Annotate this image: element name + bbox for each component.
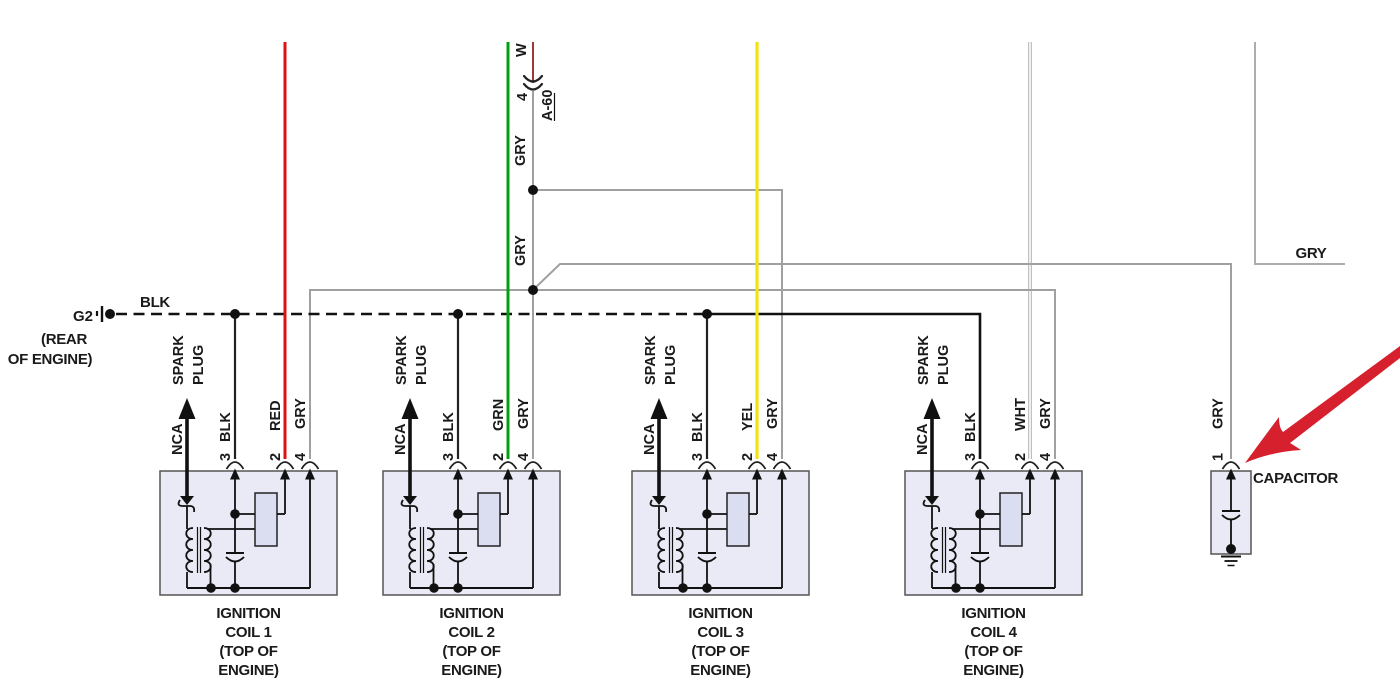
- coil 4 igniter: [1000, 493, 1022, 546]
- svg-text:GRY: GRY: [513, 135, 529, 166]
- wire GRY right side: [1255, 42, 1345, 264]
- node rail junction 1: [206, 583, 216, 593]
- svg-text:ENGINE): ENGINE): [963, 662, 1024, 679]
- wire pin4 to ground rail: [1054, 478, 1056, 588]
- coil 3 ground rail: [659, 587, 782, 589]
- coil 2 pin 2 connector: [500, 462, 517, 469]
- node coil 2 pin3 junction: [453, 509, 463, 519]
- coil 4 pin 4 connector: [1047, 462, 1064, 469]
- capacitor box: [1211, 471, 1251, 554]
- svg-text:OF ENGINE): OF ENGINE): [8, 351, 93, 368]
- svg-text:(REAR: (REAR: [41, 331, 87, 348]
- coil 4 pin 3 connector: [972, 462, 989, 469]
- wire pin3 branch: [979, 478, 981, 553]
- wire GRN (to coil 2 pin 2): [507, 42, 510, 459]
- svg-text:ENGINE): ENGINE): [218, 662, 279, 679]
- wire secondary to igniter: [207, 528, 255, 530]
- coil 1 ground rail: [187, 587, 310, 589]
- wire pin3 branch: [234, 478, 236, 553]
- node BLK junction coil 3: [702, 309, 712, 319]
- coil 2 ground rail: [410, 587, 533, 589]
- svg-text:GRY: GRY: [293, 398, 309, 429]
- wire pin3 branch: [457, 478, 459, 553]
- svg-text:COIL 4: COIL 4: [970, 624, 1017, 641]
- svg-text:BLK: BLK: [690, 412, 706, 442]
- wire W (dark red stub at top): [532, 42, 534, 83]
- net GRY branch coil1 pin4 to coil4 pin4: [310, 290, 1055, 459]
- wire secondary to igniter: [430, 528, 478, 530]
- svg-text:SPARK: SPARK: [394, 335, 410, 385]
- svg-text:PLUG: PLUG: [936, 345, 952, 385]
- svg-text:G2: G2: [73, 308, 93, 325]
- svg-text:GRY: GRY: [1211, 398, 1227, 429]
- coil 3 pin 3 connector: [699, 462, 716, 469]
- wire YEL (to coil 3 pin 2): [755, 42, 758, 459]
- svg-text:4: 4: [515, 93, 531, 101]
- coil 4 pin 2 connector: [1022, 462, 1039, 469]
- svg-text:(TOP OF: (TOP OF: [442, 643, 500, 660]
- wire pin4 to ground rail: [781, 478, 783, 588]
- svg-text:GRN: GRN: [491, 399, 507, 431]
- coil 4 primary winding: [931, 528, 938, 572]
- svg-text:4: 4: [293, 453, 309, 461]
- coil 4 core: [942, 527, 944, 573]
- svg-text:GRY: GRY: [1038, 398, 1054, 429]
- svg-text:(TOP OF: (TOP OF: [964, 643, 1022, 660]
- coil 2 primary capacitor: [449, 552, 467, 554]
- svg-text:NCA: NCA: [170, 423, 186, 455]
- coil 2 igniter: [478, 493, 500, 546]
- node rail junction 2: [230, 583, 240, 593]
- wire pin2 to igniter: [507, 478, 509, 514]
- coil 1 primary winding: [186, 528, 193, 572]
- wire RED (to coil 1 pin 2): [284, 42, 287, 459]
- svg-text:GRY: GRY: [516, 398, 532, 429]
- node capacitor ground: [1226, 544, 1236, 554]
- svg-text:SPARK: SPARK: [643, 335, 659, 385]
- coil 3 primary capacitor: [698, 552, 716, 554]
- coil 1 spark gap diode: [180, 496, 194, 505]
- svg-text:PLUG: PLUG: [663, 345, 679, 385]
- svg-text:W: W: [514, 43, 530, 57]
- node coil 4 pin3 junction: [975, 509, 985, 519]
- coil 2 core: [420, 527, 422, 573]
- svg-text:2: 2: [268, 453, 284, 461]
- wire pin2 to igniter: [1029, 478, 1031, 514]
- capacitor element: [1222, 510, 1240, 512]
- wire pin4 to ground rail: [532, 478, 534, 588]
- svg-text:2: 2: [1013, 453, 1029, 461]
- svg-text:IGNITION: IGNITION: [216, 605, 280, 622]
- svg-text:3: 3: [218, 453, 234, 461]
- node coil 3 pin3 junction: [702, 509, 712, 519]
- coil 1 pin 3 connector: [227, 462, 244, 469]
- svg-text:IGNITION: IGNITION: [961, 605, 1025, 622]
- svg-text:(TOP OF: (TOP OF: [219, 643, 277, 660]
- coil 1 igniter: [255, 493, 277, 546]
- coil 1 core: [197, 527, 199, 573]
- coil 2 pin 3 connector: [450, 462, 467, 469]
- svg-text:COIL 1: COIL 1: [225, 624, 271, 641]
- node rail junction 2: [975, 583, 985, 593]
- wire secondary to igniter: [952, 528, 1000, 530]
- node GRY junction lower: [528, 285, 538, 295]
- wire BLK drop to coil 3 pin 3: [706, 314, 708, 459]
- node rail junction 1: [429, 583, 439, 593]
- svg-text:1: 1: [1211, 453, 1227, 461]
- svg-text:PLUG: PLUG: [414, 345, 430, 385]
- coil 4 spark plug output arrow (NCA): [924, 398, 941, 419]
- svg-text:NCA: NCA: [393, 423, 409, 455]
- coil 4 ground rail: [932, 587, 1055, 589]
- node rail junction 1: [951, 583, 961, 593]
- coil 1 spark plug output arrow (NCA): [179, 398, 196, 419]
- svg-text:3: 3: [690, 453, 706, 461]
- wire secondary to igniter: [679, 528, 727, 530]
- coil 3 pin 4 connector: [774, 462, 791, 469]
- connector A-60: [524, 76, 542, 82]
- coil 3 primary winding: [658, 528, 665, 572]
- svg-text:BLK: BLK: [140, 294, 170, 311]
- svg-text:BLK: BLK: [441, 412, 457, 442]
- coil 3 spark gap diode: [652, 496, 666, 505]
- svg-text:(TOP OF: (TOP OF: [691, 643, 749, 660]
- coil 1 secondary winding: [204, 528, 211, 572]
- node rail junction 2: [453, 583, 463, 593]
- coil 4 primary capacitor: [971, 552, 989, 554]
- svg-text:GRY: GRY: [1295, 245, 1326, 262]
- wire WHT (to coil 4 pin 2): [1028, 42, 1032, 459]
- coil 3 core: [669, 527, 671, 573]
- wire BLK solid to coil 4: [710, 314, 980, 459]
- svg-text:3: 3: [963, 453, 979, 461]
- ignition coil 2 box: [383, 471, 560, 595]
- ignition coil 1 box: [160, 471, 337, 595]
- svg-text:BLK: BLK: [218, 412, 234, 442]
- node coil 1 pin3 junction: [230, 509, 240, 519]
- coil 2 pin 4 connector: [525, 462, 542, 469]
- coil 2 spark plug output arrow (NCA): [402, 398, 419, 419]
- net GRY branch to capacitor: [535, 264, 1231, 459]
- wire GRY vertical from A-60: [532, 91, 534, 459]
- capacitor pin 1 connector: [1223, 462, 1240, 469]
- net GRY branch to coil 3 pin 4: [533, 190, 782, 459]
- svg-text:SPARK: SPARK: [171, 335, 187, 385]
- svg-text:COIL 2: COIL 2: [448, 624, 494, 641]
- svg-text:2: 2: [740, 453, 756, 461]
- svg-text:CAPACITOR: CAPACITOR: [1253, 470, 1339, 487]
- coil 1 pin 4 connector: [302, 462, 319, 469]
- svg-text:NCA: NCA: [915, 423, 931, 455]
- node BLK junction coil 1: [230, 309, 240, 319]
- svg-text:4: 4: [1038, 453, 1054, 461]
- node rail junction 1: [678, 583, 688, 593]
- node rail junction 2: [702, 583, 712, 593]
- coil 3 igniter: [727, 493, 749, 546]
- coil 4 secondary winding: [949, 528, 956, 572]
- coil 2 primary winding: [409, 528, 416, 572]
- coil 3 secondary winding: [676, 528, 683, 572]
- node BLK junction coil 2: [453, 309, 463, 319]
- ground symbol under capacitor: [1221, 556, 1241, 558]
- svg-text:GRY: GRY: [765, 398, 781, 429]
- svg-text:A-60: A-60: [540, 90, 556, 121]
- coil 3 spark plug output arrow (NCA): [651, 398, 668, 419]
- svg-text:GRY: GRY: [513, 235, 529, 266]
- svg-text:WHT: WHT: [1013, 398, 1029, 431]
- annotation red arrow pointing at capacitor: [1245, 346, 1400, 463]
- coil 1 primary capacitor: [226, 552, 244, 554]
- coil 2 secondary winding: [427, 528, 434, 572]
- svg-text:IGNITION: IGNITION: [439, 605, 503, 622]
- svg-text:NCA: NCA: [642, 423, 658, 455]
- coil 1 pin 2 connector: [277, 462, 294, 469]
- ignition coil 4 box: [905, 471, 1082, 595]
- svg-text:4: 4: [765, 453, 781, 461]
- svg-text:ENGINE): ENGINE): [690, 662, 751, 679]
- wire pin3 branch: [706, 478, 708, 553]
- wire pin2 to igniter: [284, 478, 286, 514]
- svg-text:PLUG: PLUG: [191, 345, 207, 385]
- svg-text:COIL 3: COIL 3: [697, 624, 743, 641]
- coil 4 spark gap diode: [925, 496, 939, 505]
- ground G2 symbol: [96, 311, 98, 316]
- wire BLK drop to coil 2 pin 3: [457, 314, 459, 459]
- wire BLK drop to coil 1 pin 3: [234, 314, 236, 459]
- svg-text:IGNITION: IGNITION: [688, 605, 752, 622]
- coil 3 pin 2 connector: [749, 462, 766, 469]
- svg-text:SPARK: SPARK: [916, 335, 932, 385]
- svg-text:RED: RED: [268, 400, 284, 431]
- ignition coil 3 box: [632, 471, 809, 595]
- node GRY junction upper: [528, 185, 538, 195]
- svg-text:3: 3: [441, 453, 457, 461]
- svg-text:4: 4: [516, 453, 532, 461]
- svg-text:ENGINE): ENGINE): [441, 662, 502, 679]
- svg-text:YEL: YEL: [740, 403, 756, 431]
- svg-text:BLK: BLK: [963, 412, 979, 442]
- wire BLK dashed ground net: [116, 313, 712, 316]
- wire pin4 to ground rail: [309, 478, 311, 588]
- coil 2 spark gap diode: [403, 496, 417, 505]
- svg-text:2: 2: [491, 453, 507, 461]
- wire pin2 to igniter: [756, 478, 758, 514]
